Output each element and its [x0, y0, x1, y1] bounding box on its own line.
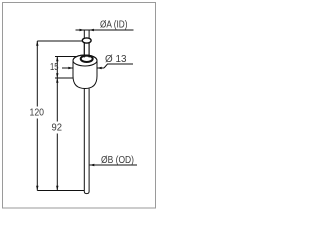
stop bead on stem — [82, 38, 91, 43]
extension line top of 15 at collar rim — [55, 56, 77, 58]
arrow down 92 — [56, 186, 58, 191]
tube rounded bottom cap — [84, 192, 89, 194]
svg-text:92: 92 — [52, 123, 63, 134]
dimension 13 left arrow — [62, 67, 73, 69]
svg-text:Ø 13: Ø 13 — [105, 54, 127, 65]
dimension line 120 vertical — [36, 41, 38, 191]
dimension line 92 vertical — [56, 78, 58, 191]
main tube walls — [84, 89, 89, 192]
dimension line 15 vertical — [56, 57, 58, 79]
svg-text:15: 15 — [50, 62, 59, 73]
arrow right of A dim — [89, 29, 94, 31]
stem walls over boss — [84, 42, 89, 58]
boss ellipse around stem — [81, 56, 93, 62]
arrow up 15 — [56, 57, 58, 62]
svg-text:120: 120 — [30, 108, 45, 119]
extension line top of 120 at bead — [37, 40, 83, 42]
extension line bottom at tube tip — [37, 190, 84, 192]
collar body with rounded bottom — [73, 61, 97, 89]
dimension B (OD) leader at bottom — [90, 164, 137, 166]
arrow up 120 — [36, 41, 38, 46]
svg-text:ØA (ID): ØA (ID) — [100, 20, 128, 31]
extension line bottom of 15 at collar body — [55, 77, 73, 79]
arrow down 15 — [56, 73, 58, 78]
arrow up 92 — [56, 78, 58, 83]
svg-text:ØB (OD): ØB (OD) — [101, 155, 134, 166]
dimension line A (ID) horizontal at top — [76, 29, 134, 31]
arrow down 120 — [36, 186, 38, 191]
dimension 13 right arrow and leader — [97, 67, 104, 69]
collar top rim re-draw over body — [73, 55, 97, 66]
stem tube walls — [84, 30, 89, 57]
arrow left of A dim — [80, 29, 85, 31]
collar outer rim ellipse — [73, 55, 97, 66]
border frame — [3, 3, 156, 209]
